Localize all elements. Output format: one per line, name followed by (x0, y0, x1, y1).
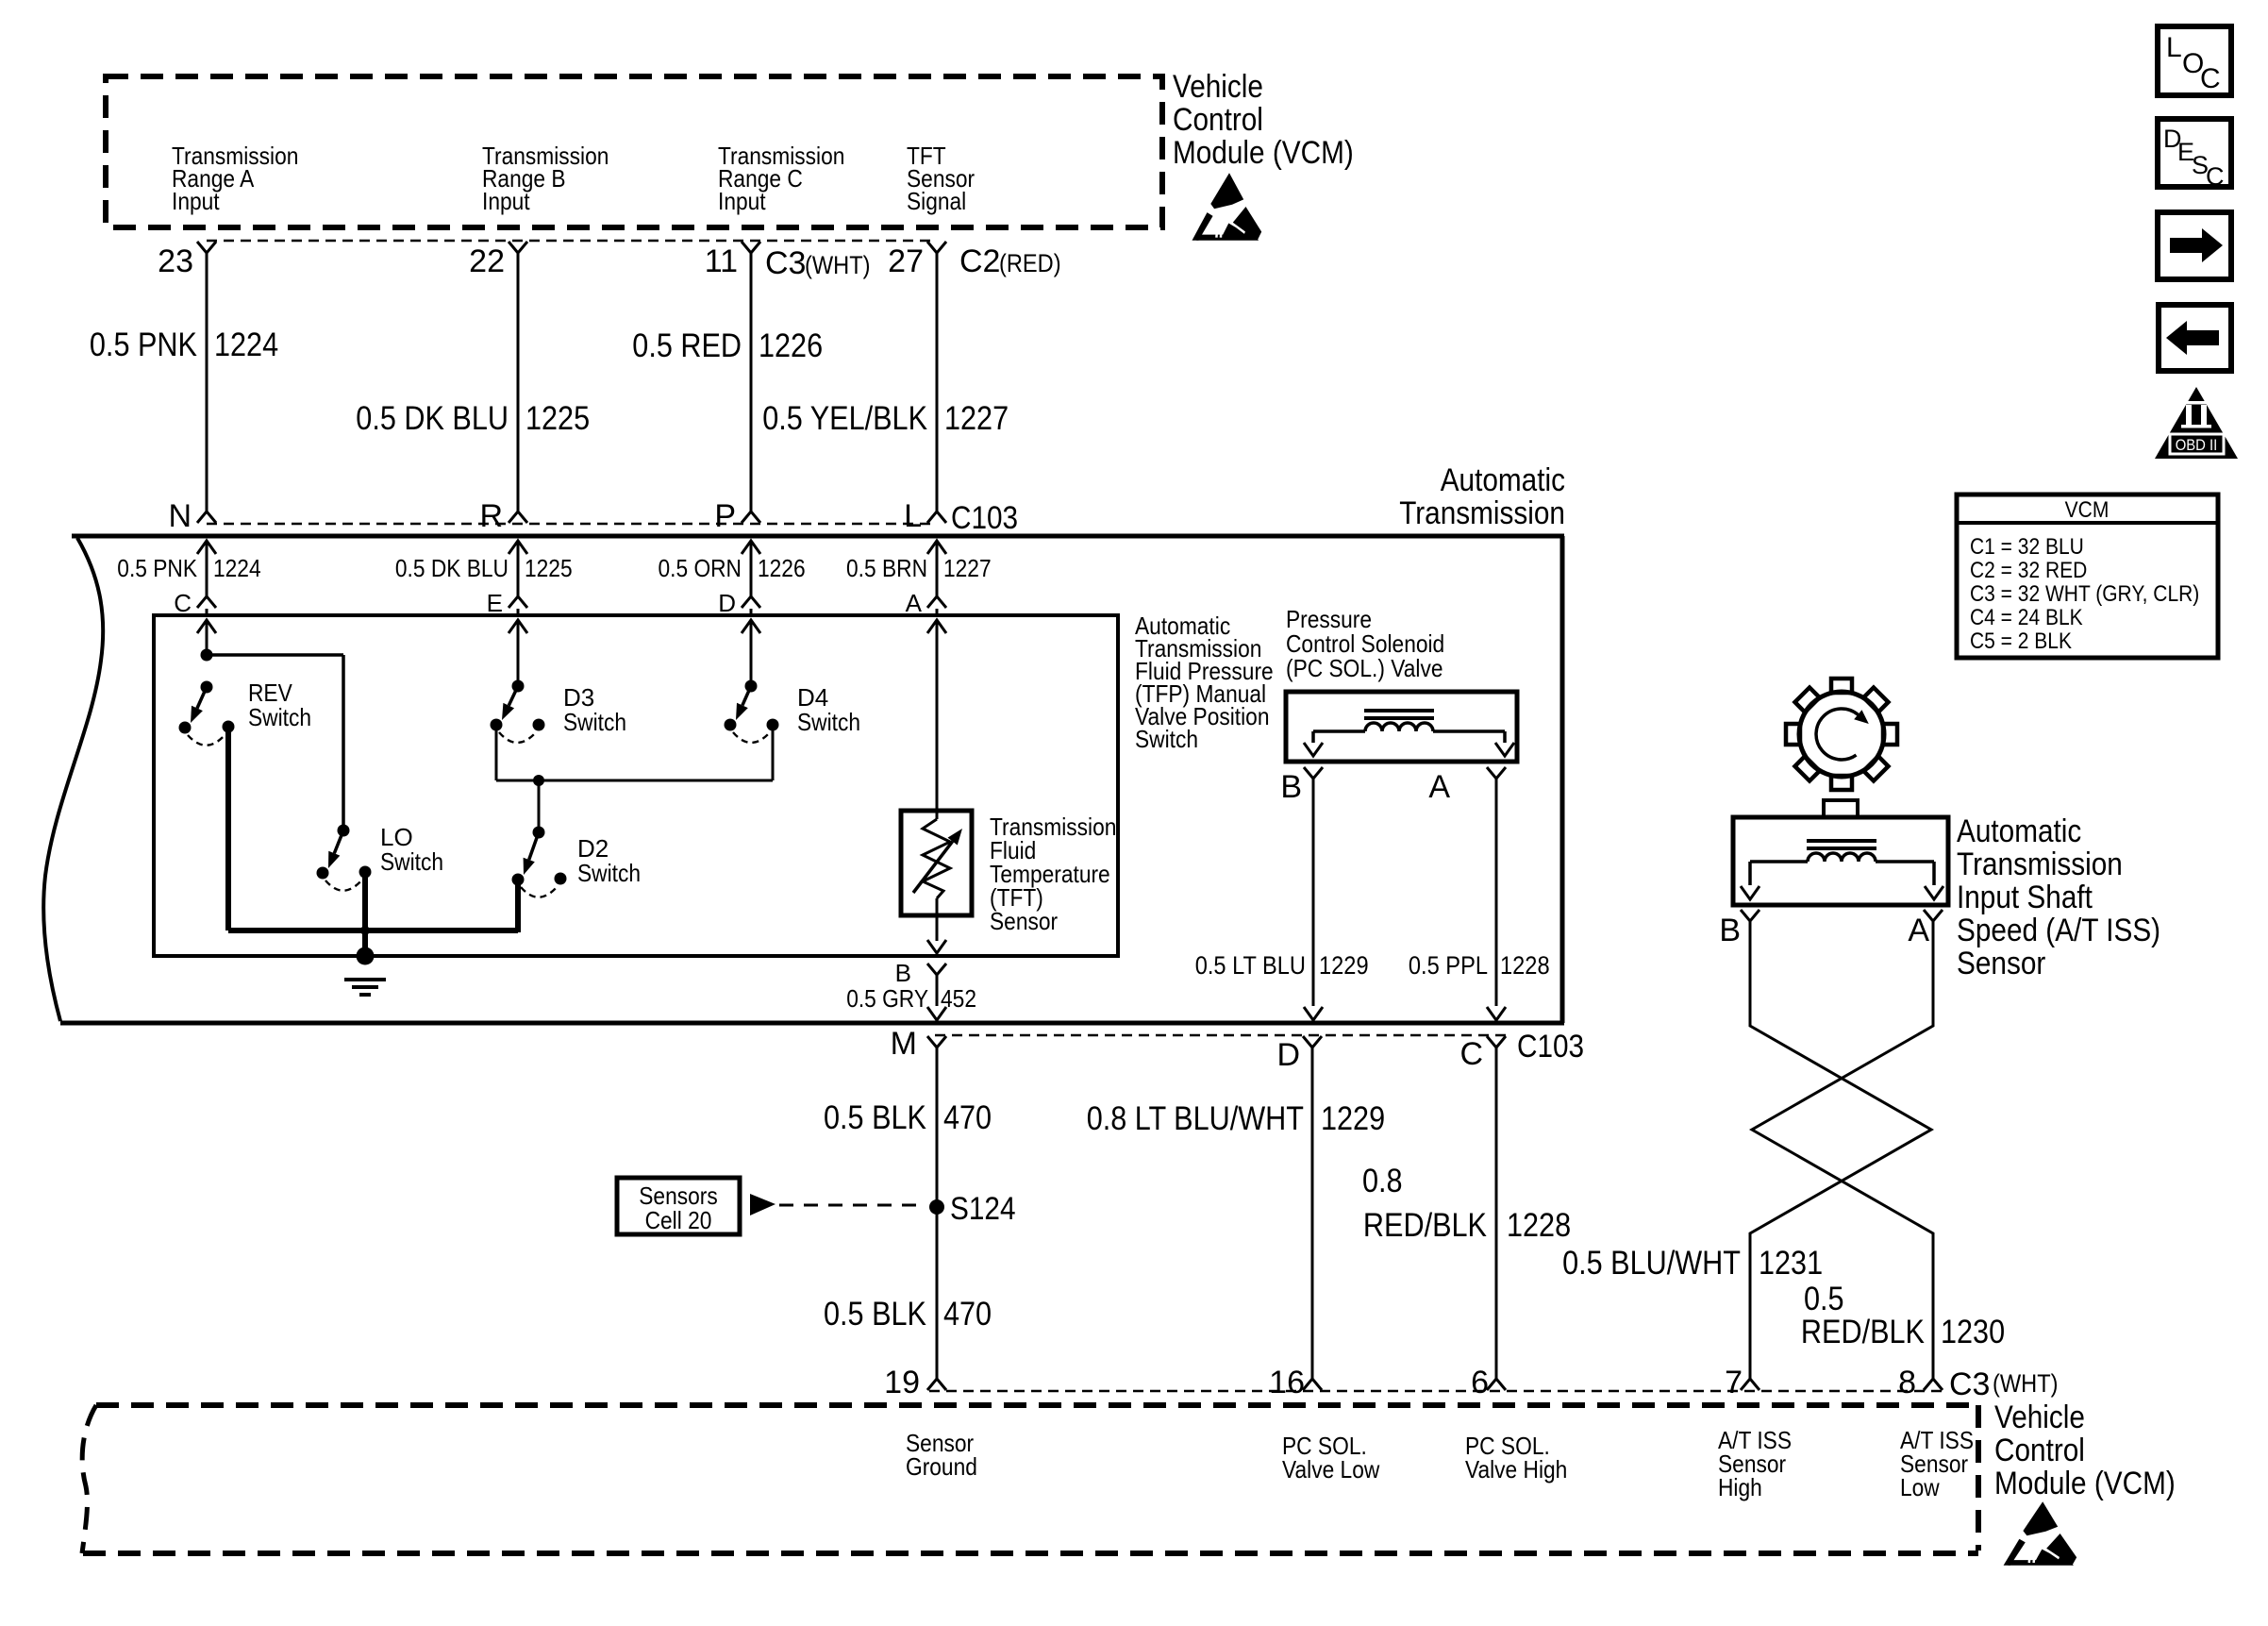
svg-text:A: A (1908, 913, 1929, 948)
svg-text:8: 8 (1898, 1365, 1916, 1400)
svg-text:Cell 20: Cell 20 (645, 1206, 712, 1234)
svg-text:11: 11 (705, 243, 738, 279)
svg-text:Automatic: Automatic (1441, 462, 1565, 498)
svg-text:0.5 DK BLU: 0.5 DK BLU (395, 554, 509, 582)
svg-text:7: 7 (1725, 1365, 1743, 1400)
svg-text:C3: C3 (1949, 1366, 1990, 1402)
svg-text:(PC SOL.) Valve: (PC SOL.) Valve (1286, 654, 1443, 682)
svg-text:S124: S124 (950, 1191, 1016, 1227)
svg-text:C2: C2 (959, 243, 1000, 279)
svg-text:19: 19 (884, 1365, 920, 1400)
svg-text:Sensor: Sensor (990, 907, 1058, 935)
svg-text:Input: Input (718, 187, 766, 215)
svg-text:1229: 1229 (1319, 951, 1369, 980)
svg-text:Switch: Switch (1135, 725, 1198, 753)
svg-text:0.8: 0.8 (1362, 1163, 1403, 1199)
svg-text:B: B (895, 959, 911, 987)
svg-text:RED/BLK: RED/BLK (1363, 1207, 1487, 1244)
svg-text:C3: C3 (765, 245, 806, 281)
svg-text:0.5 DK BLU: 0.5 DK BLU (356, 400, 509, 437)
svg-text:C3 = 32 WHT (GRY, CLR): C3 = 32 WHT (GRY, CLR) (1970, 581, 2199, 607)
svg-text:Switch: Switch (563, 708, 626, 736)
svg-text:16: 16 (1269, 1365, 1305, 1400)
svg-text:D: D (1276, 1037, 1300, 1073)
svg-text:Transmission: Transmission (1957, 847, 2123, 882)
svg-text:P: P (714, 498, 736, 534)
svg-text:0.5 PNK: 0.5 PNK (117, 554, 197, 582)
svg-text:Automatic: Automatic (1957, 813, 2081, 849)
svg-text:0.5: 0.5 (1804, 1281, 1844, 1317)
svg-text:1225: 1225 (525, 400, 590, 437)
svg-text:A: A (906, 589, 923, 617)
svg-text:OBD II: OBD II (2176, 436, 2218, 454)
svg-text:Transmission: Transmission (1399, 495, 1565, 531)
svg-text:0.5 BLK: 0.5 BLK (824, 1296, 926, 1333)
svg-text:0.5 RED: 0.5 RED (632, 327, 742, 364)
svg-text:1230: 1230 (1941, 1314, 2005, 1350)
svg-text:Control: Control (1994, 1433, 2085, 1468)
svg-text:0.8 LT BLU/WHT: 0.8 LT BLU/WHT (1087, 1100, 1304, 1137)
svg-text:0.5 ORN: 0.5 ORN (659, 554, 742, 582)
svg-text:C: C (174, 589, 192, 617)
svg-text:0.5 BRN: 0.5 BRN (846, 554, 927, 582)
svg-text:VCM: VCM (2065, 497, 2110, 523)
svg-text:(WHT): (WHT) (805, 251, 871, 279)
svg-text:22: 22 (469, 243, 505, 279)
svg-text:C103: C103 (951, 500, 1018, 536)
svg-text:L: L (2166, 32, 2182, 63)
svg-text:470: 470 (943, 1099, 992, 1136)
svg-text:Input: Input (482, 187, 530, 215)
svg-text:Switch: Switch (577, 859, 641, 887)
svg-text:Vehicle: Vehicle (1994, 1400, 2085, 1435)
svg-text:Ground: Ground (906, 1452, 977, 1481)
svg-text:1226: 1226 (758, 554, 806, 582)
svg-text:(RED): (RED) (999, 249, 1061, 277)
svg-text:Sensor: Sensor (1957, 946, 2045, 981)
svg-text:(WHT): (WHT) (1993, 1369, 2059, 1398)
svg-text:1226: 1226 (759, 327, 823, 364)
svg-text:1227: 1227 (944, 400, 1009, 437)
svg-text:Vehicle: Vehicle (1173, 69, 1263, 105)
svg-text:1224: 1224 (214, 327, 278, 363)
svg-text:0.5 PNK: 0.5 PNK (90, 327, 197, 363)
svg-text:High: High (1718, 1473, 1762, 1501)
svg-text:L: L (904, 498, 922, 534)
svg-text:1227: 1227 (943, 554, 992, 582)
svg-text:1229: 1229 (1321, 1100, 1385, 1137)
svg-text:C103: C103 (1517, 1029, 1584, 1064)
svg-text:C4 = 24 BLK: C4 = 24 BLK (1970, 605, 2083, 630)
svg-text:RED/BLK: RED/BLK (1801, 1314, 1925, 1350)
svg-text:Input: Input (172, 187, 220, 215)
svg-text:0.5 GRY: 0.5 GRY (846, 984, 928, 1013)
svg-text:1228: 1228 (1500, 951, 1550, 980)
svg-text:Switch: Switch (380, 847, 443, 876)
svg-text:6: 6 (1471, 1365, 1489, 1400)
svg-text:Switch: Switch (248, 703, 311, 731)
svg-text:D: D (718, 589, 736, 617)
svg-text:1225: 1225 (525, 554, 573, 582)
svg-text:C5 = 2 BLK: C5 = 2 BLK (1970, 629, 2072, 654)
svg-text:Low: Low (1900, 1473, 1940, 1501)
svg-text:R: R (479, 498, 503, 534)
svg-text:0.5 BLU/WHT: 0.5 BLU/WHT (1562, 1245, 1741, 1282)
svg-text:M: M (891, 1026, 917, 1062)
svg-text:Module (VCM): Module (VCM) (1994, 1466, 2176, 1501)
svg-text:C: C (1459, 1036, 1483, 1072)
svg-text:C2 = 32 RED: C2 = 32 RED (1970, 558, 2087, 583)
svg-text:C: C (2200, 63, 2221, 94)
svg-text:470: 470 (943, 1296, 992, 1333)
svg-text:Signal: Signal (907, 187, 966, 215)
svg-text:E: E (487, 589, 503, 617)
svg-text:Input Shaft: Input Shaft (1957, 880, 2093, 915)
svg-text:B: B (1280, 769, 1302, 805)
svg-text:27: 27 (888, 243, 924, 279)
svg-text:C1 = 32 BLU: C1 = 32 BLU (1970, 534, 2084, 560)
svg-text:Speed (A/T ISS): Speed (A/T ISS) (1957, 913, 2160, 948)
svg-text:Valve Low: Valve Low (1282, 1455, 1379, 1484)
svg-text:1228: 1228 (1507, 1207, 1571, 1244)
svg-text:23: 23 (158, 243, 193, 279)
svg-text:0.5 BLK: 0.5 BLK (824, 1099, 926, 1136)
svg-text:N: N (168, 498, 192, 534)
svg-text:C: C (2206, 162, 2225, 191)
svg-text:A: A (1428, 769, 1450, 805)
svg-text:B: B (1719, 913, 1741, 948)
svg-text:452: 452 (941, 984, 976, 1013)
svg-text:Control: Control (1173, 102, 1263, 138)
svg-text:Switch: Switch (797, 708, 860, 736)
svg-text:1231: 1231 (1759, 1245, 1823, 1282)
svg-text:1224: 1224 (213, 554, 261, 582)
svg-text:0.5 PPL: 0.5 PPL (1409, 951, 1488, 980)
svg-text:0.5 YEL/BLK: 0.5 YEL/BLK (762, 400, 927, 437)
svg-text:0.5 LT BLU: 0.5 LT BLU (1195, 951, 1306, 980)
svg-text:Valve High: Valve High (1465, 1455, 1567, 1484)
svg-text:Module (VCM): Module (VCM) (1173, 135, 1354, 171)
